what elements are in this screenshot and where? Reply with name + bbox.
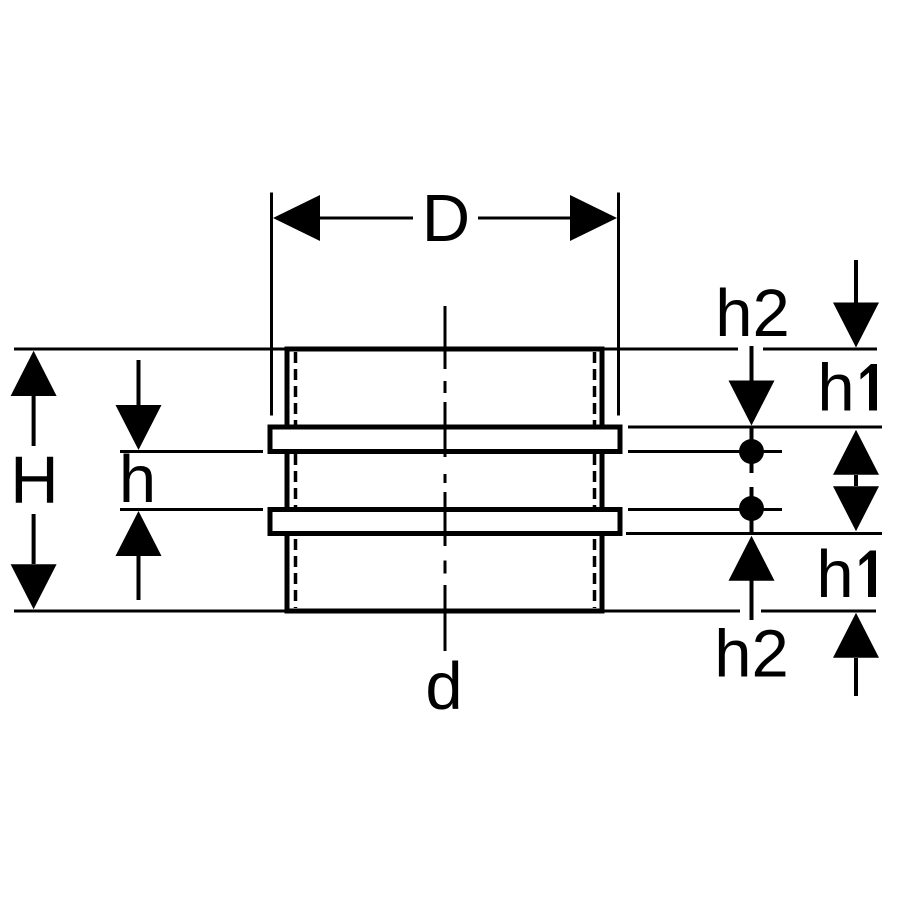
svg-text:D: D bbox=[422, 181, 470, 256]
svg-text:h: h bbox=[816, 537, 853, 612]
svg-text:h: h bbox=[119, 442, 156, 517]
svg-text:d: d bbox=[425, 649, 462, 724]
svg-text:H: H bbox=[10, 443, 58, 518]
svg-text:h2: h2 bbox=[714, 617, 789, 692]
svg-text:h2: h2 bbox=[715, 276, 790, 351]
svg-text:h: h bbox=[817, 351, 854, 426]
